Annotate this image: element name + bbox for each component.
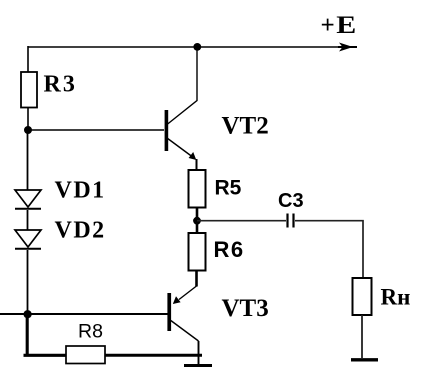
transistor VT3 [179, 286, 197, 300]
wire C3 to Rn [295, 221, 363, 278]
wire junction to VD1 [27, 130, 29, 190]
svg-text:VT2: VT2 [222, 113, 269, 140]
svg-text:VD1: VD1 [55, 178, 106, 204]
svg-text:VD2: VD2 [55, 218, 106, 244]
wire bottom to R8 [24, 354, 67, 357]
svg-text:R6: R6 [214, 237, 245, 262]
svg-text:+E: +E [321, 12, 357, 39]
supply arrow +E [338, 46, 357, 48]
wire top supply rail [28, 46, 350, 48]
node junction left base [24, 310, 32, 318]
node junction R3 / VT2 base / VD1 [24, 126, 32, 134]
transistor VT2 [165, 110, 169, 151]
resistor R8 [66, 346, 105, 364]
diode VD1 [15, 190, 41, 207]
wire R3 top lead [27, 46, 29, 72]
svg-text:Rн: Rн [381, 285, 411, 310]
ground right [351, 358, 378, 361]
resistor Rн load [353, 278, 372, 315]
resistor R3 [21, 72, 37, 108]
node junction top rail / VT2 collector [193, 43, 201, 51]
svg-text:R5: R5 [215, 177, 242, 200]
wire left feedback loop down [26, 314, 29, 355]
wire VT3 base from left edge [0, 313, 168, 315]
svg-text:R8: R8 [78, 321, 103, 343]
wire R3 bottom lead [27, 108, 29, 131]
wire node to C3 [197, 220, 286, 222]
wire VT2 base [28, 129, 164, 131]
resistor R6 [189, 233, 206, 271]
wire Rn bottom lead [361, 315, 363, 358]
ground left [184, 364, 212, 367]
resistor R5 [189, 170, 206, 208]
capacitor C3 [286, 214, 288, 228]
svg-text:C3: C3 [278, 190, 304, 212]
wire VD1 to VD2 [27, 210, 29, 230]
wire R5 to R6 [196, 208, 199, 234]
diode VD2 [15, 230, 41, 247]
node junction R5/R6/C3 [193, 217, 201, 225]
wire R8 to emitter node [105, 354, 202, 357]
wire VT3 emitter to ground [198, 341, 200, 364]
svg-text:VT3: VT3 [222, 295, 269, 322]
svg-text:R3: R3 [44, 72, 77, 98]
wire VD2 to lower node [27, 250, 29, 314]
wire R6 bottom lead [195, 271, 198, 287]
